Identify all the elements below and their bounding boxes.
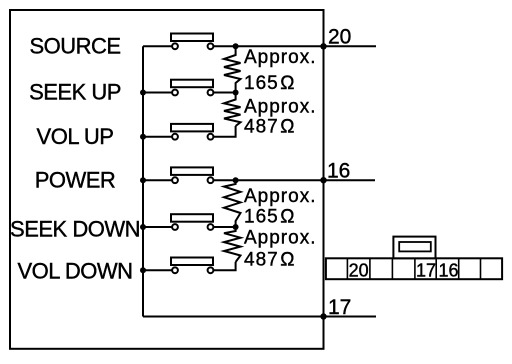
connector cavity label 20 (349, 260, 369, 280)
svg-text:17: 17 (328, 296, 351, 319)
switch SW5 SEEK DOWN (140, 214, 236, 230)
pin 16 label (327, 160, 350, 183)
junction node row2/R1-R2 (233, 90, 239, 96)
svg-text:487Ω: 487Ω (244, 250, 295, 271)
pin 20 label (328, 26, 351, 49)
svg-text:VOL UP: VOL UP (37, 124, 114, 149)
switch SW4 POWER (140, 167, 324, 183)
label SOURCE (29, 34, 120, 59)
svg-text:Approx.: Approx. (244, 47, 316, 68)
resistor R3 165 ohm (224, 180, 241, 227)
svg-text:SOURCE: SOURCE (29, 34, 120, 59)
connector cavity label 16 (438, 260, 458, 280)
junction node row1/R1 (233, 43, 239, 49)
svg-text:16: 16 (327, 160, 350, 183)
svg-text:SEEK UP: SEEK UP (29, 80, 121, 105)
pin 17 lead wire (324, 316, 377, 318)
value label R3 Approx. 165 ohm (244, 186, 316, 228)
pin 16 lead wire (324, 179, 376, 181)
label SEEK DOWN (10, 217, 140, 242)
switch SW3 VOL UP (140, 124, 236, 140)
svg-text:20: 20 (349, 260, 369, 280)
resistor R1 165 ohm (224, 46, 241, 92)
junction node row4/R3 (233, 177, 239, 183)
switch assembly outline (10, 10, 324, 349)
pin 20 lead wire (324, 45, 377, 47)
svg-text:487Ω: 487Ω (244, 116, 295, 137)
svg-text:20: 20 (328, 26, 351, 49)
label VOL DOWN (18, 259, 133, 284)
resistor R4 487 ohm (224, 227, 241, 262)
value label R1 Approx. 165 ohm (244, 47, 316, 94)
svg-text:Approx.: Approx. (244, 186, 316, 207)
svg-text:16: 16 (438, 260, 458, 280)
pin 16 node (320, 177, 326, 183)
connector pinout body (326, 258, 502, 279)
label SEEK UP (29, 80, 121, 105)
switch SW2 SEEK UP (140, 80, 236, 96)
connector cavity label 17 (416, 260, 436, 280)
svg-text:SEEK DOWN: SEEK DOWN (10, 217, 140, 242)
pin 20 node (320, 43, 326, 49)
value label R2 Approx. 487 ohm (244, 96, 316, 137)
wire common bottom to pin 17 (143, 316, 324, 318)
value label R4 Approx. 487 ohm (244, 228, 316, 271)
pin 17 node (320, 313, 326, 319)
svg-text:Approx.: Approx. (244, 96, 316, 117)
svg-text:17: 17 (416, 260, 436, 280)
resistor R2 487 ohm (224, 93, 241, 127)
svg-text:POWER: POWER (35, 167, 116, 192)
connector locking tab (393, 237, 435, 259)
pin 17 label (328, 296, 351, 319)
wire common bus (142, 46, 144, 316)
svg-text:165Ω: 165Ω (244, 207, 295, 228)
junction node row5/R3-R4 (233, 224, 239, 230)
switch SW1 SOURCE (143, 34, 324, 50)
label POWER (35, 167, 116, 192)
svg-text:Approx.: Approx. (244, 228, 316, 249)
label VOL UP (37, 124, 114, 149)
svg-text:165Ω: 165Ω (244, 73, 295, 94)
switch SW6 VOL DOWN (140, 258, 236, 274)
svg-text:VOL DOWN: VOL DOWN (18, 259, 133, 284)
